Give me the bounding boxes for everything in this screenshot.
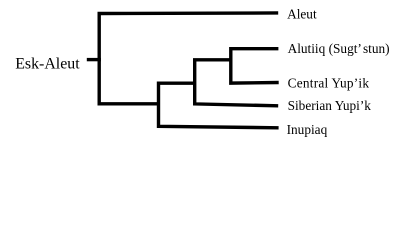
svg-text:Inupiaq: Inupiaq (287, 122, 328, 137)
svg-text:Aleut: Aleut (287, 6, 317, 21)
svg-text:Siberian Yupi’k: Siberian Yupi’k (288, 98, 372, 113)
svg-text:Central Yup’ik: Central Yup’ik (288, 75, 370, 90)
wire: V2 vertical with top arm and Inupiaq branch (159, 83, 279, 128)
wire: V3 vertical with top arm and Siberian branch (195, 60, 279, 106)
wire: root bracket (Aleut top branch, root vertical, Eskimo bottom arm) (99, 13, 278, 104)
wire: V4 bracket (Alutiiq branch, vertical, Central branch) (231, 49, 279, 83)
svg-text:Alutiiq (Sugt’ stun): Alutiiq (Sugt’ stun) (288, 41, 390, 56)
wire: Esk-Aleut stub (87, 58, 101, 61)
svg-text:Esk-Aleut: Esk-Aleut (15, 56, 80, 73)
